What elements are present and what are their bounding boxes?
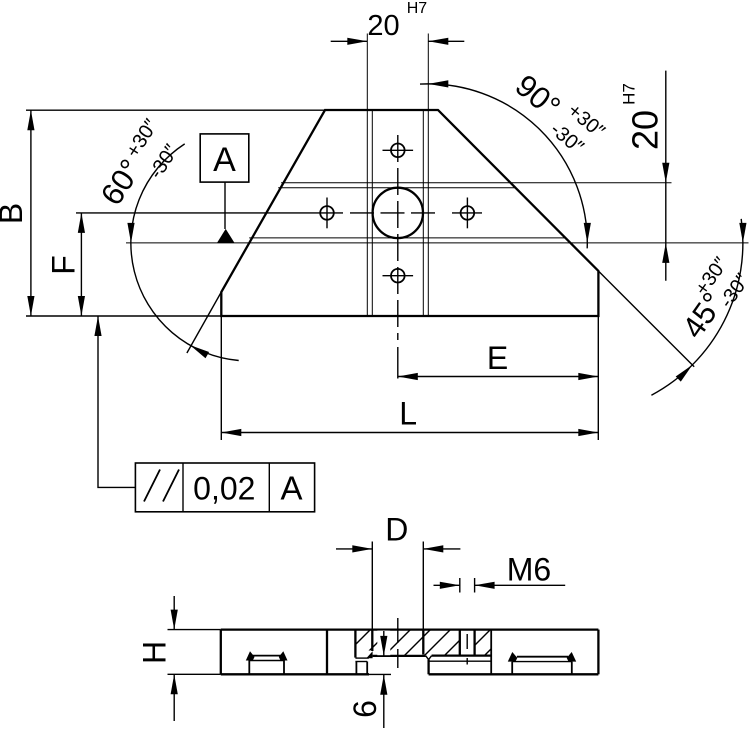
svg-text:20: 20 (624, 110, 665, 150)
svg-text:M6: M6 (507, 552, 551, 588)
svg-text:L: L (399, 396, 417, 432)
svg-text:A: A (213, 141, 236, 179)
svg-text:6: 6 (347, 700, 383, 718)
svg-text:0,02: 0,02 (193, 471, 255, 507)
svg-text:H7: H7 (407, 0, 428, 17)
svg-text:H7: H7 (619, 83, 638, 105)
svg-text:D: D (385, 512, 408, 548)
svg-text:20: 20 (367, 10, 399, 42)
svg-text:B: B (0, 203, 29, 224)
svg-text:F: F (46, 255, 82, 275)
svg-text:A: A (280, 470, 302, 507)
svg-text:H: H (137, 641, 173, 664)
svg-text:E: E (487, 340, 508, 376)
